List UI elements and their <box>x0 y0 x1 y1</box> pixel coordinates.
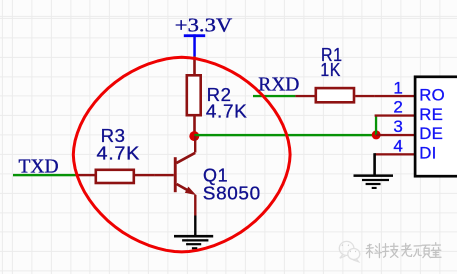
wire RXD (green) <box>253 95 295 97</box>
ground at Q1 emitter <box>174 235 213 249</box>
resistor R3 <box>76 170 155 183</box>
node: collector junction dot <box>189 131 199 141</box>
resistor R2 <box>187 56 201 135</box>
wire: emitter to ground (black) <box>194 216 196 236</box>
connector J1 box <box>415 77 457 176</box>
svg-text:RE: RE <box>419 105 443 124</box>
svg-text:4.7K: 4.7K <box>206 101 248 121</box>
highlight circle annotation <box>73 57 290 252</box>
svg-text:2: 2 <box>393 98 402 117</box>
svg-text:1K: 1K <box>320 60 341 80</box>
svg-text:RO: RO <box>419 86 445 105</box>
svg-text:S8050: S8050 <box>203 183 261 203</box>
power +3.3V <box>175 15 233 56</box>
svg-text:DI: DI <box>419 144 436 163</box>
svg-text:3: 3 <box>393 117 402 136</box>
wire: collector net to DE (horizontal green) <box>194 134 376 136</box>
node: RE/DE tie junction dot <box>372 130 381 139</box>
svg-text:RXD: RXD <box>258 74 299 95</box>
svg-text:1: 1 <box>393 78 402 97</box>
connector pin 2 wire <box>375 114 416 116</box>
connector pin 3 wire <box>376 134 416 136</box>
transistor Q1 <box>154 136 196 216</box>
svg-text:4: 4 <box>393 137 402 156</box>
svg-text:TXD: TXD <box>19 157 59 178</box>
watermark logo (chat bubbles) <box>339 241 359 261</box>
resistor R1 <box>295 88 374 102</box>
watermark text (grey CJK stroke approximation) <box>366 243 441 258</box>
wire: RE to DE tie (vertical green) <box>375 116 377 135</box>
connector pin 4 wire <box>375 153 416 155</box>
svg-text:4.7K: 4.7K <box>97 144 141 164</box>
ground at pin 4 <box>354 174 394 189</box>
connector pin 1 wire <box>375 95 416 97</box>
svg-text:+3.3V: +3.3V <box>175 15 233 36</box>
wire TXD (green) <box>13 174 76 176</box>
svg-text:DE: DE <box>419 124 443 143</box>
wire: pin 4 to ground (black) <box>373 153 376 174</box>
